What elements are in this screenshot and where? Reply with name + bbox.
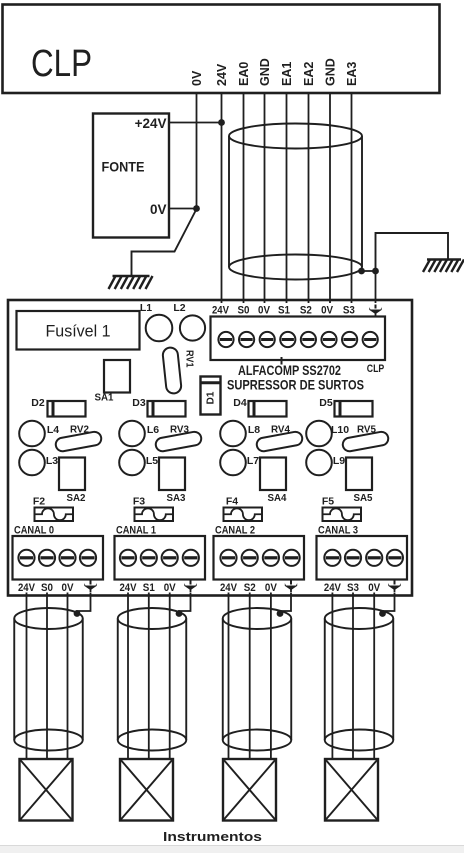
wire FONTE 0V to 0V line: [169, 208, 197, 210]
PLC box CLP: [3, 5, 440, 94]
shielded cable left side: [228, 136, 230, 267]
terminal block TB1 (to CLP): [211, 317, 386, 361]
svg-text:0V: 0V: [321, 305, 334, 317]
svg-text:S2: S2: [244, 582, 256, 594]
fuse F1 Fusível 1: [17, 311, 140, 350]
svg-text:F4: F4: [226, 496, 238, 508]
svg-text:S1: S1: [278, 305, 290, 317]
svg-text:CANAL 3: CANAL 3: [318, 525, 358, 537]
instrument cable 0 bottom ellipse: [14, 730, 83, 751]
shielded cable bottom ellipse: [229, 255, 362, 280]
instrument cable 3 right side: [392, 619, 394, 741]
junction channel 2 shield node: [277, 610, 284, 617]
svg-text:SA1: SA1: [95, 392, 114, 404]
svg-text:RV1: RV1: [184, 350, 195, 368]
junction shield node: [358, 268, 365, 275]
svg-text:CANAL 0: CANAL 0: [14, 525, 54, 537]
wire channel 3 0V to instrument: [373, 593, 375, 760]
instrument cable 3 top ellipse: [325, 608, 394, 629]
svg-text:CANAL 1: CANAL 1: [116, 525, 156, 537]
svg-text:CLP: CLP: [31, 43, 92, 85]
wire EA2-S2: [308, 93, 310, 303]
wire channel 1 S1 to instrument: [148, 593, 150, 760]
svg-text:24V: 24V: [324, 582, 342, 594]
channel 1 screw terminal 2: [141, 550, 157, 566]
svg-text:D2: D2: [31, 397, 45, 409]
shielded cable top ellipse: [229, 124, 362, 149]
svg-text:L3: L3: [46, 455, 58, 467]
channel 3 screw terminal 3: [366, 550, 382, 566]
svg-text:GND: GND: [324, 58, 338, 86]
svg-text:GND: GND: [258, 58, 272, 86]
TB1 screw terminal 6: [321, 332, 336, 347]
svg-text:L6: L6: [147, 424, 159, 436]
svg-text:Fusível 1: Fusível 1: [46, 322, 111, 341]
footer strip: [0, 845, 464, 853]
channel 1 screw terminal 1: [120, 550, 136, 566]
terminal block channel 1: [115, 536, 206, 580]
junction channel 0 shield node: [74, 610, 81, 617]
instrument cable 3 left side: [324, 619, 326, 741]
svg-text:CANAL 2: CANAL 2: [215, 525, 255, 537]
svg-text:0V: 0V: [265, 582, 278, 594]
wire ground riser to earth: [376, 233, 449, 271]
svg-text:D1: D1: [206, 391, 217, 404]
wire channel 0 S0 to instrument: [46, 593, 48, 760]
wire channel 2 earth to cable shield: [280, 593, 291, 614]
channel 1 screw terminal 4: [183, 550, 199, 566]
svg-text:S0: S0: [238, 305, 250, 317]
wire GND-0V: [264, 93, 266, 303]
junction channel 3 shield node: [379, 610, 386, 617]
instrument cable 2 right side: [290, 619, 292, 741]
svg-text:L10: L10: [331, 424, 349, 436]
shielded cable right side: [361, 136, 363, 267]
svg-text:EA0: EA0: [237, 62, 251, 86]
svg-text:Instrumentos: Instrumentos: [163, 829, 262, 844]
svg-text:S1: S1: [143, 582, 155, 594]
svg-text:D5: D5: [319, 397, 333, 409]
svg-text:EA3: EA3: [345, 62, 359, 86]
svg-text:0V: 0V: [164, 582, 177, 594]
wire channel 2 S2 to instrument: [249, 593, 251, 760]
wire 24V from CLP to board terminal 24V: [221, 93, 223, 303]
instrument 0 (transmitter): [20, 759, 73, 821]
svg-text:24V: 24V: [215, 63, 229, 86]
channel 3 screw terminal 4: [387, 550, 403, 566]
channel 3 screw terminal 2: [345, 550, 361, 566]
instrument cable 2 left side: [222, 619, 224, 741]
svg-text:L2: L2: [173, 302, 185, 314]
wire GND-0V: [329, 93, 331, 303]
power supply FONTE: [93, 114, 169, 238]
ground (earth) below FONTE: [109, 276, 153, 289]
instrument cable 1 top ellipse: [118, 608, 187, 629]
svg-text:L1: L1: [140, 302, 152, 314]
instrument cable 0 right side: [82, 619, 84, 741]
svg-text:F5: F5: [322, 496, 334, 508]
svg-text:+24V: +24V: [135, 116, 167, 131]
wire channel 0 earth to cable shield: [77, 593, 91, 614]
wire EA3-S3: [351, 93, 353, 303]
junction 0V node: [193, 205, 200, 212]
svg-text:D4: D4: [233, 397, 247, 409]
svg-text:EA2: EA2: [302, 62, 316, 86]
channel 0 screw terminal 3: [59, 550, 75, 566]
channel 3 screw terminal 1: [324, 550, 340, 566]
channel 2 screw terminal 3: [263, 550, 279, 566]
terminal block channel 0: [13, 536, 104, 580]
channel 0 screw terminal 1: [18, 550, 34, 566]
surge arrester SA4: [260, 458, 286, 491]
instrument cable 1 left side: [117, 619, 119, 741]
TB1 earth terminal symbol: [369, 305, 381, 317]
channel 2 screw terminal 1: [220, 550, 236, 566]
instrument 1 (transmitter): [120, 759, 173, 821]
terminal block channel 2: [214, 536, 305, 580]
instrument 3 (transmitter): [325, 759, 378, 821]
svg-text:CLP: CLP: [367, 363, 385, 375]
svg-text:24V: 24V: [212, 305, 230, 317]
wire channel 3 earth to cable shield: [383, 593, 395, 614]
svg-text:D3: D3: [132, 397, 146, 409]
wire channel 0 0V to instrument: [67, 593, 69, 760]
channel 0 screw terminal 4: [80, 550, 96, 566]
svg-text:L5: L5: [146, 455, 158, 467]
svg-text:0V: 0V: [258, 305, 271, 317]
instrument cable 2 bottom ellipse: [223, 730, 292, 751]
TB1 screw terminal 5: [301, 332, 316, 347]
channel 3 earth terminal symbol: [388, 581, 400, 593]
TB1 screw terminal 3: [260, 332, 275, 347]
instrument cable 0 left side: [13, 619, 15, 741]
silkscreen mark: [281, 357, 283, 365]
instrument cable 0 top ellipse: [14, 608, 83, 629]
channel 0 earth terminal symbol: [84, 581, 96, 593]
wire 0V node to ground: [132, 209, 197, 276]
TB1 screw terminal 7: [342, 332, 357, 347]
TB1 screw terminal 8: [363, 332, 378, 347]
svg-text:0V: 0V: [62, 582, 75, 594]
svg-text:24V: 24V: [18, 582, 36, 594]
svg-text:0V: 0V: [368, 582, 381, 594]
svg-text:S3: S3: [343, 305, 355, 317]
channel 2 screw terminal 4: [284, 550, 300, 566]
channel 1 earth terminal symbol: [184, 581, 196, 593]
instrument 2 (transmitter): [223, 759, 276, 821]
svg-text:F3: F3: [133, 496, 145, 508]
wire channel 1 24V to instrument: [127, 593, 129, 760]
wire channel 1 0V to instrument: [169, 593, 171, 760]
svg-text:L9: L9: [333, 455, 345, 467]
instrument cable 1 bottom ellipse: [118, 730, 187, 751]
svg-text:SA4: SA4: [268, 492, 287, 504]
svg-text:EA1: EA1: [280, 62, 294, 86]
wire channel 2 24V to instrument: [228, 593, 230, 760]
svg-text:24V: 24V: [120, 582, 138, 594]
wire channel 2 0V to instrument: [270, 593, 272, 760]
ground (earth) top right: [423, 260, 464, 273]
diode D1: [201, 377, 221, 415]
channel 2 earth terminal symbol: [285, 581, 297, 593]
wire channel 0 24V to instrument: [26, 593, 28, 760]
surge arrester SA5: [346, 458, 372, 491]
wire channel 3 S3 to instrument: [352, 593, 354, 760]
svg-text:L7: L7: [247, 455, 259, 467]
TB1 screw terminal 1: [218, 332, 233, 347]
wire EA1-S1: [286, 93, 288, 303]
svg-text:S2: S2: [300, 305, 312, 317]
channel 1 screw terminal 3: [162, 550, 178, 566]
surge arrester SA1: [104, 360, 130, 393]
TB1 screw terminal 4: [280, 332, 295, 347]
svg-text:SA2: SA2: [67, 492, 86, 504]
svg-text:SUPRESSOR DE SURTOS: SUPRESSOR DE SURTOS: [227, 377, 364, 393]
wire channel 3 24V to instrument: [331, 593, 333, 760]
TB1 screw terminal 2: [239, 332, 254, 347]
svg-text:FONTE: FONTE: [102, 159, 145, 175]
surge suppressor board outline: [8, 300, 412, 596]
svg-text:0V: 0V: [190, 70, 204, 86]
wire 0V from CLP to FONTE 0V node: [196, 93, 198, 209]
svg-text:S0: S0: [41, 582, 53, 594]
svg-text:0V: 0V: [150, 202, 167, 217]
junction shield ground node: [372, 268, 379, 275]
instrument cable 1 right side: [185, 619, 187, 741]
wire shield node down to board earth terminal: [375, 271, 377, 303]
svg-text:SA3: SA3: [167, 492, 186, 504]
svg-text:S3: S3: [347, 582, 359, 594]
svg-text:L8: L8: [248, 424, 260, 436]
svg-text:24V: 24V: [220, 582, 238, 594]
svg-text:F2: F2: [33, 496, 45, 508]
junction channel 1 shield node: [176, 610, 183, 617]
terminal block channel 3: [317, 536, 408, 580]
wire channel 1 earth to cable shield: [179, 593, 191, 614]
wire shield to ground riser: [362, 270, 376, 272]
wire FONTE +24V to 24V line: [169, 122, 222, 124]
junction +24V node: [218, 119, 225, 126]
channel 2 screw terminal 2: [242, 550, 258, 566]
svg-text:SA5: SA5: [354, 492, 373, 504]
varistor RV1: [162, 347, 182, 394]
svg-text:L4: L4: [47, 424, 59, 436]
wire EA0-S0: [243, 93, 245, 303]
instrument cable 2 top ellipse: [223, 608, 292, 629]
surge arrester SA3: [159, 458, 185, 491]
surge arrester SA2: [59, 458, 85, 491]
instrument cable 3 bottom ellipse: [325, 730, 394, 751]
channel 0 screw terminal 2: [39, 550, 55, 566]
